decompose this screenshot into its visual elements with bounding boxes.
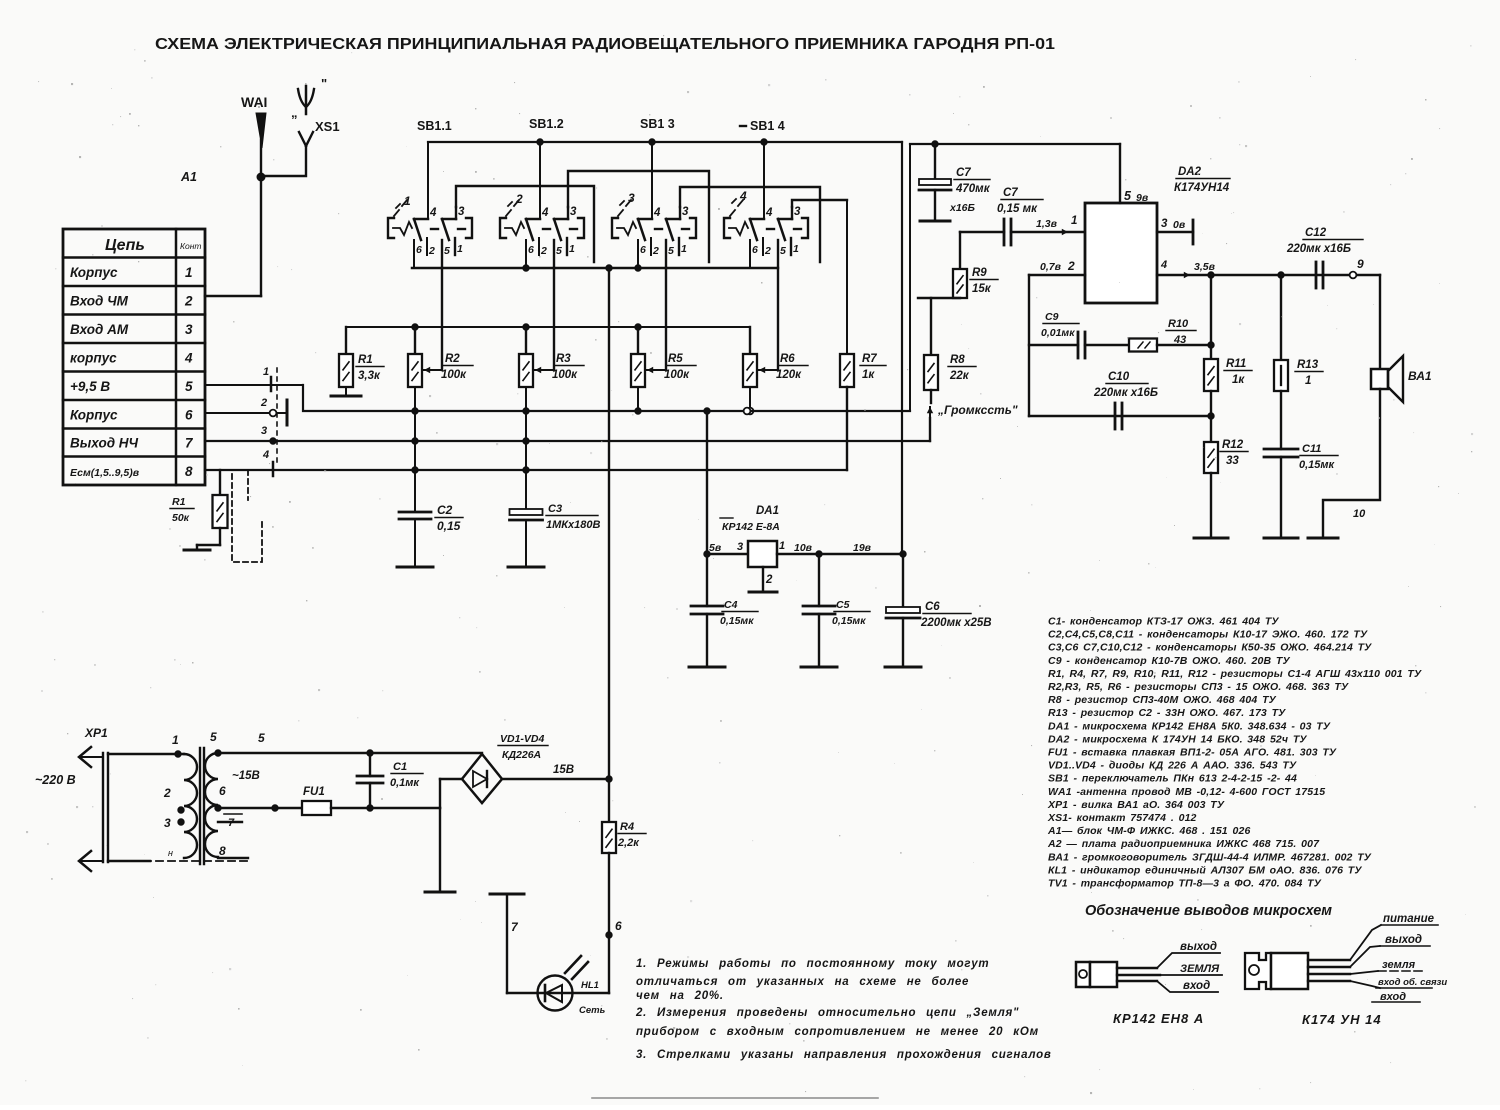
svg-text:4: 4 [184, 350, 193, 365]
svg-text:+9,5 В: +9,5 В [70, 379, 110, 394]
svg-text:100к: 100к [552, 369, 578, 381]
svg-text:2. Измерения проведены от: 2. Измерения проведены относительно цепи… [635, 1007, 1019, 1019]
svg-text:C11: C11 [1302, 443, 1321, 455]
svg-text:~15В: ~15В [232, 770, 260, 782]
svg-text:220мк х16Б: 220мк х16Б [1093, 387, 1158, 399]
svg-text:земля: земля [1382, 959, 1416, 971]
svg-text:3: 3 [628, 191, 635, 205]
svg-text:SB1 4: SB1 4 [750, 119, 785, 133]
svg-text:5: 5 [258, 731, 265, 745]
svg-text:9в: 9в [1136, 192, 1149, 204]
svg-text:0,1мк: 0,1мк [390, 777, 420, 789]
svg-text:КД226А: КД226А [502, 749, 541, 761]
svg-text:вход: вход [1380, 991, 1406, 1003]
svg-text:Сеть: Сеть [579, 1005, 606, 1016]
svg-text:6: 6 [185, 407, 193, 422]
svg-text:Есм(1,5..9,5)в: Есм(1,5..9,5)в [70, 467, 140, 479]
svg-text:VD1..VD4 - диоды КД 226 А: VD1..VD4 - диоды КД 226 А ААО. 336. 543 … [1048, 760, 1297, 772]
svg-text:100к: 100к [441, 369, 467, 381]
svg-text:2200мк х25В: 2200мк х25В [920, 617, 992, 629]
svg-text:1: 1 [457, 243, 463, 255]
svg-text:8: 8 [219, 844, 226, 858]
svg-text:5: 5 [210, 730, 217, 744]
svg-text:КР142 ЕН8 А: КР142 ЕН8 А [1113, 1011, 1204, 1026]
svg-text:питание: питание [1383, 913, 1435, 925]
svg-text:R3: R3 [556, 353, 571, 365]
svg-text:0,15мк: 0,15мк [1299, 459, 1336, 471]
svg-text:470мк: 470мк [955, 183, 991, 195]
svg-text:R8 - резистор СП3-40М ОЖО: R8 - резистор СП3-40М ОЖО. 468 404 ТУ [1048, 694, 1277, 706]
svg-text:3: 3 [737, 541, 743, 553]
svg-text:1: 1 [681, 243, 687, 255]
svg-text:R1: R1 [172, 496, 186, 508]
svg-text:0,15мк: 0,15мк [832, 615, 866, 627]
svg-text:А1— блок ЧМ-Ф ИЖКС. 468 .: А1— блок ЧМ-Ф ИЖКС. 468 . 151 026 [1047, 825, 1250, 837]
svg-text:1к: 1к [1232, 374, 1245, 386]
svg-text:ВА1: ВА1 [1408, 369, 1432, 383]
svg-text:R7: R7 [862, 353, 877, 365]
svg-text:2: 2 [184, 293, 193, 308]
svg-text:5: 5 [780, 245, 786, 257]
svg-text:3: 3 [185, 322, 193, 337]
svg-text:C7: C7 [1003, 187, 1018, 199]
svg-text:отличаться от указанных: отличаться от указанных на схеме не боле… [636, 976, 969, 988]
svg-text:R2,R3, R5, R6 - резисторы: R2,R3, R5, R6 - резисторы СП3 - 15 ОЖО. … [1048, 681, 1349, 693]
svg-text:6: 6 [219, 784, 226, 798]
svg-text:R6: R6 [780, 353, 795, 365]
svg-text:К174УН14: К174УН14 [1174, 182, 1230, 194]
svg-text:R1: R1 [358, 354, 373, 366]
svg-text:2: 2 [163, 786, 171, 800]
svg-text:4: 4 [429, 207, 437, 219]
svg-text:C3: C3 [548, 503, 562, 515]
svg-text:5: 5 [556, 245, 562, 257]
svg-text:VD1-VD4: VD1-VD4 [500, 733, 545, 745]
svg-text:КL1 - индикатор единичный: КL1 - индикатор единичный АЛ307 БМ оАО. … [1048, 864, 1362, 876]
svg-text:6: 6 [640, 244, 646, 256]
svg-text:Цепь: Цепь [105, 237, 145, 254]
svg-text:220мк х16Б: 220мк х16Б [1286, 243, 1351, 255]
svg-text:6: 6 [528, 244, 534, 256]
svg-text:C7: C7 [956, 167, 971, 179]
svg-text:1: 1 [1071, 215, 1077, 227]
svg-text:10в: 10в [794, 542, 813, 554]
svg-text:3: 3 [458, 206, 465, 218]
svg-text:6: 6 [416, 244, 422, 256]
svg-text:~220 В: ~220 В [35, 773, 76, 787]
svg-text:А2 — плата радиоприемника И: А2 — плата радиоприемника ИЖКС 468 715. … [1047, 838, 1320, 850]
svg-text:19в: 19в [853, 542, 872, 554]
svg-text:3. Стрелками указаны на: 3. Стрелками указаны направления прохожд… [636, 1049, 1052, 1061]
svg-text:DА1 - микросхема КР142 ЕН8А: DА1 - микросхема КР142 ЕН8А 5К0. 348.634… [1048, 720, 1331, 732]
svg-text:SВ1 - переключатель ПКн 613: SВ1 - переключатель ПКн 613 2-4-2-15 -2-… [1048, 773, 1297, 785]
svg-text:4: 4 [262, 449, 269, 461]
svg-text:3: 3 [794, 206, 801, 218]
svg-text:0,01мк: 0,01мк [1041, 327, 1075, 339]
svg-text:выход: выход [1385, 934, 1422, 946]
svg-text:22к: 22к [949, 370, 970, 382]
svg-text:1. Режимы работы по постоян: 1. Режимы работы по постоянному току мог… [636, 958, 989, 970]
svg-text:R13: R13 [1297, 359, 1319, 371]
svg-text:R12: R12 [1222, 439, 1244, 451]
svg-text:Обозначение выводов микросхе: Обозначение выводов микросхем [1085, 903, 1332, 919]
svg-text:ХР1 - вилка ВА1 аО. 364 00: ХР1 - вилка ВА1 аО. 364 003 ТУ [1047, 799, 1225, 811]
svg-text:0,15 мк: 0,15 мк [997, 203, 1038, 215]
svg-text:2: 2 [515, 192, 523, 206]
svg-text:50к: 50к [172, 512, 190, 524]
svg-text:СХЕМА ЭЛЕКТРИЧЕСКАЯ ПРИНЦИПИ: СХЕМА ЭЛЕКТРИЧЕСКАЯ ПРИНЦИПИАЛЬНАЯ РАДИО… [155, 36, 1055, 53]
svg-text:прибором с входным сопрот: прибором с входным сопротивлением не мен… [636, 1026, 1039, 1038]
svg-text:C12: C12 [1305, 227, 1327, 239]
svg-text:1,3в: 1,3в [1036, 218, 1058, 230]
svg-text:вход: вход [1183, 980, 1210, 992]
svg-text:DA2: DA2 [1178, 166, 1202, 178]
svg-text:ЗЕМЛЯ: ЗЕМЛЯ [1180, 963, 1220, 975]
svg-text:1к: 1к [862, 369, 875, 381]
svg-text:5: 5 [1124, 189, 1132, 203]
svg-text:0в: 0в [1173, 219, 1186, 231]
svg-text:SB1.1: SB1.1 [417, 119, 452, 133]
svg-text:15к: 15к [972, 283, 992, 295]
svg-text:Корпус: Корпус [70, 265, 118, 280]
svg-text:1: 1 [172, 733, 179, 747]
svg-text:R2: R2 [445, 353, 460, 365]
svg-text:С1- конденсатор КТЗ-17 ОЖЗ.: С1- конденсатор КТЗ-17 ОЖЗ. 461 404 ТУ [1048, 616, 1279, 628]
svg-text:5в: 5в [709, 542, 722, 554]
svg-text:0,15: 0,15 [437, 519, 461, 533]
svg-text:корпус: корпус [70, 350, 117, 365]
svg-text:3,5в: 3,5в [1194, 261, 1216, 273]
svg-text:R9: R9 [972, 267, 987, 279]
svg-text:3: 3 [1161, 218, 1168, 230]
svg-text:1МКх180В: 1МКх180В [546, 519, 601, 531]
svg-text:1: 1 [404, 194, 411, 208]
svg-text:2: 2 [540, 245, 547, 257]
svg-text:XS1: XS1 [315, 119, 340, 134]
svg-text:1: 1 [793, 243, 799, 255]
svg-text:Конт: Конт [180, 241, 202, 251]
svg-text:4: 4 [653, 207, 661, 219]
svg-text:н: н [168, 848, 173, 858]
svg-text:2,2к: 2,2к [617, 837, 640, 849]
svg-text:„: „ [291, 105, 298, 120]
svg-text:4: 4 [739, 189, 747, 203]
svg-text:C5: C5 [836, 599, 850, 611]
svg-text:4: 4 [765, 207, 773, 219]
svg-text:2: 2 [765, 574, 773, 586]
svg-text:R11: R11 [1226, 358, 1246, 370]
svg-text:6: 6 [615, 919, 622, 933]
svg-text:R8: R8 [950, 354, 965, 366]
svg-text:ХР1: ХР1 [84, 726, 108, 740]
svg-text:С2,С4,С5,С8,С11 - конденсатор: С2,С4,С5,С8,С11 - конденсаторы К10-17 ЭЖ… [1048, 629, 1368, 641]
svg-text:К174 УН 14: К174 УН 14 [1302, 1012, 1382, 1027]
svg-text:C2: C2 [437, 503, 453, 517]
svg-text:C6: C6 [925, 601, 940, 613]
svg-text:Вход АМ: Вход АМ [70, 322, 129, 337]
svg-text:FU1 - вставка плавкая ВП1: FU1 - вставка плавкая ВП1-2- 05А АГО. 48… [1048, 747, 1337, 759]
svg-text:3: 3 [682, 206, 689, 218]
svg-text:Вход ЧМ: Вход ЧМ [70, 293, 129, 308]
svg-text:10: 10 [1353, 508, 1366, 520]
svg-text:А1: А1 [180, 170, 197, 184]
svg-text:Выход НЧ: Выход НЧ [70, 436, 139, 451]
svg-text:х16Б: х16Б [949, 202, 976, 214]
svg-text:C4: C4 [724, 599, 738, 611]
svg-text:3: 3 [570, 206, 577, 218]
svg-text:R1, R4, R7, R9, R10, R11, R12: R1, R4, R7, R9, R10, R11, R12 - резистор… [1048, 668, 1422, 680]
svg-text:1: 1 [263, 366, 269, 378]
svg-text:„Громкссть": „Громкссть" [937, 403, 1018, 417]
svg-text:5: 5 [668, 245, 674, 257]
svg-text:SB1 3: SB1 3 [640, 117, 675, 131]
svg-text:Корпус: Корпус [70, 407, 118, 422]
svg-text:ТV1 - трансформатор ТП-8—3: ТV1 - трансформатор ТП-8—3 а ФО. 470. 08… [1048, 878, 1322, 890]
svg-text:R10: R10 [1168, 318, 1189, 330]
svg-text:0,15мк: 0,15мк [720, 615, 754, 627]
svg-text:6: 6 [752, 244, 758, 256]
svg-text:4: 4 [1160, 259, 1167, 271]
svg-text:1: 1 [569, 243, 575, 255]
svg-text:43: 43 [1173, 334, 1186, 346]
svg-text:9: 9 [1357, 257, 1364, 271]
svg-text:1: 1 [779, 540, 785, 552]
svg-text:R13 - резистор С2 - 33Н О: R13 - резистор С2 - 33Н ОЖО. 467. 173 ТУ [1048, 707, 1286, 719]
svg-text:SB1.2: SB1.2 [529, 117, 564, 131]
svg-text:": " [321, 76, 327, 91]
svg-text:5: 5 [444, 245, 450, 257]
svg-text:чем на 20%.: чем на 20%. [636, 990, 724, 1002]
svg-text:4: 4 [541, 207, 549, 219]
svg-text:2: 2 [1067, 259, 1075, 273]
svg-text:FU1: FU1 [303, 786, 325, 798]
svg-text:15В: 15В [553, 764, 574, 776]
svg-text:С9 - конденсатор К10-7В ОЖ: С9 - конденсатор К10-7В ОЖО. 460. 20В ТУ [1048, 655, 1290, 667]
svg-text:ВА1 - громкоговоритель ЗГДШ-4: ВА1 - громкоговоритель ЗГДШ-44-4 ИЛМР. 4… [1048, 851, 1372, 863]
svg-text:100к: 100к [664, 369, 690, 381]
svg-text:1: 1 [1305, 375, 1311, 387]
svg-text:1: 1 [185, 265, 193, 280]
svg-text:WА1 -антенна провод МВ -0,1: WА1 -антенна провод МВ -0,12- 4-600 ГОСТ… [1048, 786, 1325, 798]
svg-text:5: 5 [185, 379, 193, 394]
svg-text:0,7в: 0,7в [1040, 261, 1062, 273]
svg-text:3: 3 [164, 816, 171, 830]
svg-text:ХS1- контакт 757474 . 012: ХS1- контакт 757474 . 012 [1047, 812, 1197, 824]
svg-text:R4: R4 [620, 821, 634, 833]
svg-text:120к: 120к [776, 369, 802, 381]
svg-text:DА1: DА1 [756, 505, 779, 517]
svg-text:8: 8 [185, 464, 193, 479]
svg-text:HL1: HL1 [581, 980, 599, 991]
svg-text:3,3к: 3,3к [358, 370, 381, 382]
svg-text:2: 2 [652, 245, 659, 257]
svg-text:3: 3 [261, 425, 267, 437]
svg-text:2: 2 [260, 397, 267, 409]
svg-text:выход: выход [1180, 941, 1217, 953]
svg-text:КР142 Е-8А: КР142 Е-8А [722, 521, 780, 533]
svg-text:2: 2 [764, 245, 771, 257]
svg-text:С3,С6 С7,С10,С12 - конденсатор: С3,С6 С7,С10,С12 - конденсаторы К50-35 О… [1048, 642, 1372, 654]
svg-text:33: 33 [1226, 455, 1239, 467]
svg-text:2: 2 [428, 245, 435, 257]
svg-text:вход об. связи: вход об. связи [1378, 977, 1447, 988]
svg-text:C9: C9 [1045, 311, 1059, 323]
svg-text:WAI: WAI [241, 94, 267, 110]
svg-text:DА2 - микросхема К 174УН 14: DА2 - микросхема К 174УН 14 БКО. 348 52ч… [1048, 733, 1307, 745]
svg-text:C10: C10 [1108, 371, 1130, 383]
svg-text:R5: R5 [668, 353, 683, 365]
svg-text:С1: С1 [393, 761, 407, 773]
